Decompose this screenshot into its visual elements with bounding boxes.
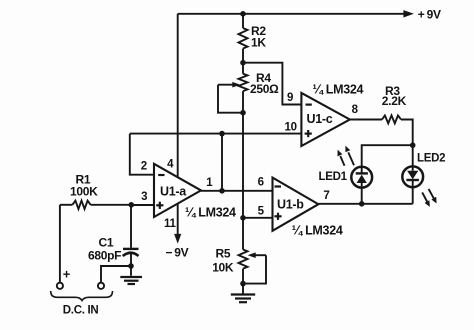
svg-text:6: 6 [258, 176, 264, 188]
wire +9V rail [178, 13, 405, 15]
wire R4 wiper loop to bottom terminal [218, 85, 243, 113]
LED LED1 [351, 167, 372, 204]
svg-text:− 9V: − 9V [166, 245, 189, 259]
wire U1-b pin 7 output [318, 203, 412, 205]
wire LED1 top branch [362, 145, 413, 167]
wire U1-a pin 11 to -9V arrow [177, 203, 179, 235]
brace D.C. IN [51, 291, 113, 301]
wire main vertical R4 to R5 [242, 113, 244, 218]
resistor R3 [382, 115, 401, 123]
potentiometer R4 [239, 63, 248, 113]
wire follower feedback vertical [221, 134, 223, 191]
capacitor C1 [123, 205, 139, 266]
wire U1-a pin 4 to +9V rail [177, 14, 179, 178]
svg-text:D.C. IN: D.C. IN [63, 304, 99, 316]
op-amp U1-c [301, 93, 349, 146]
wire DC minus terminal to C1 node [101, 266, 131, 283]
light arrows LED2 [422, 189, 436, 207]
wire U1-c output to R3 [350, 119, 382, 121]
wire U1-a output to U1-b pin 6 [201, 190, 273, 192]
svg-text:9: 9 [287, 92, 293, 104]
svg-text:U1-b: U1-b [277, 198, 304, 212]
node junction R4 bottom [240, 110, 246, 116]
node junction feedback to output [219, 131, 225, 137]
wire R3 to LED junction [401, 120, 413, 146]
svg-text:+ 9V: + 9V [418, 8, 441, 22]
light arrows LED1 [338, 146, 355, 166]
svg-text:¼ LM324: ¼ LM324 [185, 205, 236, 219]
resistor R1 [60, 201, 131, 209]
svg-text:2: 2 [141, 160, 147, 172]
svg-text:LED2: LED2 [417, 152, 445, 164]
svg-text:10K: 10K [212, 260, 234, 274]
wire pin 2 from feedback line [130, 134, 154, 175]
node junction R1/C1/pin3 [129, 202, 135, 208]
wire R5 wiper loop to bottom terminal [243, 255, 266, 283]
svg-text:R5: R5 [216, 246, 231, 260]
wiper arrow R5 [248, 252, 266, 258]
svg-text:1K: 1K [251, 36, 266, 50]
svg-text:3: 3 [141, 191, 147, 203]
node junction R5 bottom [240, 281, 246, 287]
power -9V arrow [174, 234, 181, 244]
op-amp U1-a [154, 164, 201, 217]
svg-text:1: 1 [206, 177, 213, 189]
node junction R2 top on +9V rail [240, 11, 246, 17]
svg-text:¼ LM324: ¼ LM324 [292, 224, 343, 238]
node junction U1-a output [219, 188, 225, 194]
svg-text:LED1: LED1 [319, 171, 348, 183]
power +9V arrow [403, 10, 414, 17]
node junction LED1 bottom / pin7 wire [359, 201, 365, 207]
LED LED2 [402, 166, 423, 203]
node junction LED top [410, 142, 416, 148]
svg-text:7: 7 [323, 190, 329, 202]
op-amp U1-b [273, 178, 319, 231]
wire U1-a feedback / pin 10 line [130, 133, 302, 135]
node junction C1 bottom [128, 263, 134, 269]
wire LED2 top lead [412, 145, 414, 167]
svg-text:2.2K: 2.2K [382, 94, 407, 108]
terminal DC minus [98, 283, 104, 289]
node junction R2/R4 [240, 60, 246, 66]
svg-text:10: 10 [285, 121, 297, 133]
potentiometer R5 [239, 218, 248, 284]
ground below C1 [120, 266, 142, 284]
svg-text:11: 11 [164, 218, 176, 230]
wiper arrow R4 [218, 82, 240, 88]
svg-text:8: 8 [352, 104, 359, 116]
node junction R5 top / pin 5 [240, 215, 246, 221]
svg-text:5: 5 [258, 205, 265, 217]
svg-text:U1-a: U1-a [160, 185, 187, 199]
terminal DC plus [57, 283, 63, 289]
wire U1-a pin 3 input [131, 204, 154, 206]
svg-text:680pF: 680pF [88, 248, 121, 262]
svg-text:¼ LM324: ¼ LM324 [313, 83, 364, 97]
svg-text:U1-c: U1-c [307, 112, 333, 126]
svg-text:100K: 100K [70, 185, 98, 199]
ground below R5 [231, 284, 255, 303]
wire DC plus terminal to R1 [59, 205, 61, 283]
resistor R2 [239, 14, 248, 63]
svg-text:250Ω: 250Ω [250, 82, 279, 96]
wire U1-c pin 9 from R2/R4 junction [243, 63, 301, 105]
svg-text:+: + [63, 267, 71, 282]
svg-text:4: 4 [167, 159, 174, 171]
wire U1-b pin 5 input [243, 217, 273, 219]
